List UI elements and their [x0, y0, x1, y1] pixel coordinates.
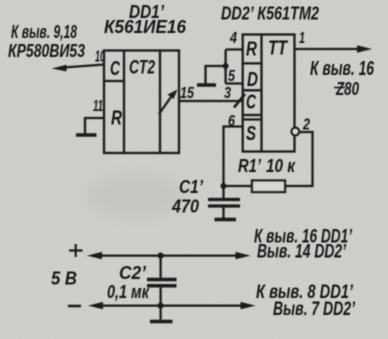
- junction dot +rail/C2: [158, 253, 164, 259]
- svg-text:C1’: C1’: [179, 177, 204, 197]
- svg-text:R1’: R1’: [238, 156, 262, 176]
- DD1 output edge arrow: [159, 97, 171, 114]
- svg-text:D: D: [247, 69, 258, 91]
- wire pin 10 with left arrow: [64, 65, 104, 68]
- svg-text:C: C: [246, 92, 256, 114]
- net label K vyv 9,18 KR580VI53: [8, 22, 85, 61]
- wire 0V rail: [100, 304, 244, 306]
- svg-text:Выв. 14 DD2’: Выв. 14 DD2’: [257, 242, 347, 263]
- svg-text:0,1 мк: 0,1 мк: [107, 282, 150, 302]
- net label K vyv 16 DD1 / vyv 14 DD2: [254, 227, 353, 263]
- svg-text:C2’: C2’: [119, 263, 147, 283]
- ground (R-D inputs): [197, 83, 216, 87]
- svg-text:Выв. 7 DD2’: Выв. 7 DD2’: [273, 299, 356, 320]
- svg-text:DD2’ К561ТМ2: DD2’ К561ТМ2: [221, 4, 319, 24]
- wire tying pins 4 and 5: [224, 50, 226, 84]
- stroke through Z of Z80: [334, 87, 345, 89]
- svg-text:4: 4: [229, 30, 237, 47]
- svg-text:3: 3: [224, 85, 231, 102]
- capacitor C2: [159, 256, 161, 278]
- wire to ground stub: [206, 66, 226, 84]
- svg-text:К выв. 16: К выв. 16: [310, 58, 375, 80]
- dynamic input slash at C: [234, 94, 245, 108]
- net label K vyv 8 DD1 / vyv 7 DD2: [256, 282, 356, 320]
- wire pin 11: [85, 118, 104, 134]
- plus terminal: [69, 244, 83, 257]
- svg-text:R: R: [246, 39, 257, 61]
- svg-text:15: 15: [180, 85, 195, 102]
- svg-text:C: C: [110, 58, 120, 80]
- svg-text:5 В: 5 В: [51, 269, 77, 289]
- flip-flop DD2 box: [243, 35, 295, 152]
- svg-text:R: R: [111, 108, 122, 130]
- wire pin 4: [226, 48, 243, 50]
- capacitor C1: [222, 186, 224, 198]
- junction dot 0V/C2: [158, 303, 164, 309]
- svg-text:S: S: [246, 123, 256, 145]
- IC DD1 title: [104, 2, 187, 37]
- wire node to R1: [224, 185, 253, 187]
- ground (C1): [215, 218, 237, 222]
- wire pin 5: [226, 82, 243, 84]
- junction node R1/C1: [221, 183, 227, 189]
- svg-text:10 к: 10 к: [266, 156, 296, 176]
- svg-text:Z80: Z80: [335, 79, 359, 99]
- wire DD1.15 to DD2.3: [179, 100, 243, 102]
- net label K vyv 16 Z80: [310, 58, 375, 99]
- resistor R1: [252, 181, 285, 193]
- svg-text:CT2: CT2: [129, 58, 155, 79]
- inverted output circle pin 2: [292, 128, 300, 136]
- faint page show-through smudge: [87, 173, 183, 219]
- svg-text:К561ИЕ16: К561ИЕ16: [104, 17, 187, 37]
- svg-text:11: 11: [93, 98, 103, 115]
- wire pin 6 down to RC node: [224, 127, 243, 187]
- svg-text:1: 1: [299, 30, 305, 47]
- wire +5V rail: [99, 254, 239, 256]
- counter DD1 box: [104, 51, 179, 154]
- svg-text:К выв. 9,18: К выв. 9,18: [11, 22, 77, 42]
- svg-text:КР580ВИ53: КР580ВИ53: [8, 41, 85, 61]
- ground (pin 11): [76, 133, 97, 137]
- junction dot R-D tie: [223, 63, 229, 69]
- wire pin 2 to R1: [285, 132, 313, 186]
- minus terminal: [68, 305, 81, 308]
- wire pin 1 output with right arrow: [295, 48, 360, 50]
- ground (C2): [150, 320, 173, 324]
- svg-text:470: 470: [171, 197, 199, 217]
- svg-text:TT: TT: [268, 38, 288, 60]
